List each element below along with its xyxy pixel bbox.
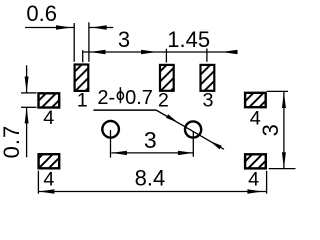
pad 1 xyxy=(75,65,89,91)
dim 8.4 extension right xyxy=(266,171,268,194)
phi symbol stem xyxy=(119,87,121,103)
leader arrow down-right xyxy=(166,114,178,123)
dim 3 right tick bottom xyxy=(269,168,296,170)
pad 4 top-left xyxy=(39,93,60,107)
dim 0.7 arrow up xyxy=(25,107,29,123)
dim 0.7 line upper xyxy=(26,65,28,92)
dim 3 middle line xyxy=(111,152,193,154)
dim 8.4 arrow left xyxy=(39,189,55,193)
center stub circle 2 xyxy=(192,131,194,157)
svg-text:3: 3 xyxy=(258,124,283,136)
pad 4 top-right xyxy=(245,93,266,107)
phi symbol ellipse xyxy=(117,92,123,100)
dim 0.7 line lower xyxy=(26,107,28,157)
hole circle 2 xyxy=(185,121,201,137)
extension line pad2 center xyxy=(165,49,167,63)
svg-text:0.7: 0.7 xyxy=(125,87,153,109)
extension line pad1 right edge xyxy=(88,22,90,62)
svg-text:4: 4 xyxy=(43,107,54,129)
leader arrow up-left xyxy=(210,141,222,150)
svg-text:1: 1 xyxy=(77,90,88,112)
svg-text:3: 3 xyxy=(144,127,157,153)
pad 4 bottom-right xyxy=(245,154,266,168)
dim 8.4 arrow right xyxy=(247,189,263,193)
svg-text:2: 2 xyxy=(158,89,169,111)
center stub circle 1 xyxy=(110,130,112,158)
svg-text:2-: 2- xyxy=(97,87,115,109)
pad 2 xyxy=(160,65,174,91)
dim 1.45 arrow left-pointing xyxy=(222,50,238,54)
svg-text:0.7: 0.7 xyxy=(0,125,24,159)
dim 0.7 tick bottom xyxy=(21,106,37,108)
svg-text:3: 3 xyxy=(118,27,130,52)
svg-text:4: 4 xyxy=(248,168,259,190)
dim 3 right line xyxy=(283,92,285,168)
svg-text:0.6: 0.6 xyxy=(26,1,57,26)
svg-text:8.4: 8.4 xyxy=(135,165,166,190)
svg-text:1.45: 1.45 xyxy=(167,27,210,52)
pad 4 bottom-left xyxy=(39,154,60,168)
dim 0.6 line right xyxy=(89,27,114,29)
extension line pad1 left edge xyxy=(73,23,75,62)
leader underline xyxy=(93,109,156,111)
dim 3 arrow left-pointing xyxy=(90,50,106,54)
extension line pad3 center xyxy=(206,49,208,62)
dim 0.7 arrow down xyxy=(25,77,29,93)
dim 0.7 tick top xyxy=(21,92,37,94)
pad 3 xyxy=(201,65,215,91)
svg-text:4: 4 xyxy=(43,168,54,190)
svg-text:3: 3 xyxy=(202,89,213,111)
dim 3 right arrow down xyxy=(282,152,286,168)
dim arrow right-pointing at pad2 xyxy=(141,50,157,54)
dim 0.6 line left xyxy=(25,27,75,29)
leader diagonal xyxy=(156,110,224,149)
dim 8.4 extension left xyxy=(37,171,39,194)
dim 0.6 arrow right-pointing xyxy=(56,25,72,29)
dim 3 right arrow up xyxy=(282,92,286,108)
dim 3 right tick top xyxy=(267,90,288,92)
dim 8.4 line xyxy=(39,191,266,193)
extension line pad1 center xyxy=(82,50,84,62)
dim 3 middle arrow left xyxy=(111,151,127,155)
hole circle 1 xyxy=(102,121,119,138)
dim 0.6 arrow left-pointing xyxy=(91,25,107,29)
dim 3 middle arrow right xyxy=(178,151,194,155)
dim line 3 and 1.45 xyxy=(83,51,238,53)
